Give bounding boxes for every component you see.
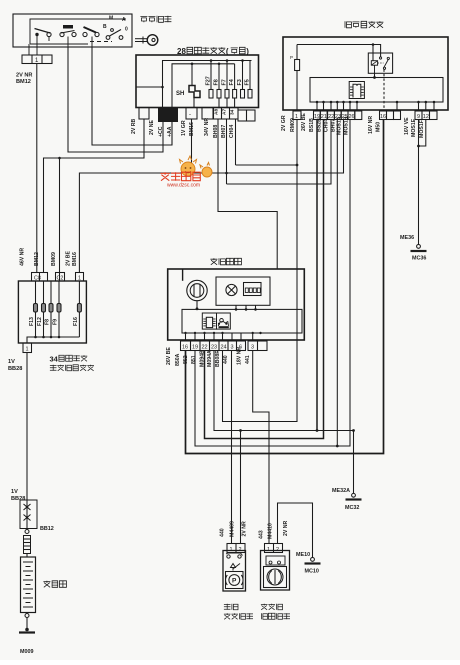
svg-text:F16: F16 <box>73 317 79 326</box>
svg-text:18V NR: 18V NR <box>237 347 243 365</box>
wire 440 cluster p3 to parking pin1 <box>231 351 233 544</box>
svg-text:2: 2 <box>276 547 279 553</box>
svg-text:16: 16 <box>182 345 188 351</box>
wire fluid pin2 to ground MC10 <box>278 503 313 558</box>
svg-text:3: 3 <box>231 345 234 351</box>
control pin 22 <box>324 111 335 132</box>
svg-text:0: 0 <box>125 27 128 33</box>
svg-text:-: - <box>189 112 191 118</box>
fuse F8 <box>214 64 222 108</box>
relay in control box <box>368 53 392 73</box>
key symbol <box>135 35 158 46</box>
fuse box pin I BM16 <box>181 108 197 137</box>
svg-text:12: 12 <box>423 114 429 120</box>
connector under ignition switch <box>22 55 52 64</box>
svg-text:46V NR: 46V NR <box>20 248 26 266</box>
ground ME32A MC32 <box>332 488 362 511</box>
wire gauge to inner rect <box>196 301 199 310</box>
wire CH04 control L to fuse A7 wire <box>227 120 332 185</box>
splice box BB12 <box>20 500 54 532</box>
ground M009 <box>19 614 35 656</box>
svg-text:RM09: RM09 <box>290 118 296 132</box>
svg-text:440: 440 <box>220 528 226 537</box>
fuse F16 <box>73 281 82 337</box>
watermark dzsc logo <box>161 156 213 189</box>
fuse box pin 34 <box>229 108 238 139</box>
svg-text:M094A: M094A <box>207 350 213 367</box>
svg-text:34V NR: 34V NR <box>204 118 210 136</box>
svg-text:26: 26 <box>349 114 355 120</box>
svg-text:1: 1 <box>267 547 270 553</box>
ignition rotary contact M A B 0 <box>103 16 128 40</box>
wire relay coil to inner rect <box>373 73 376 79</box>
cluster inner rect <box>182 309 302 333</box>
svg-text:M4409: M4409 <box>230 521 236 537</box>
fuse box pin A7 <box>221 108 230 139</box>
wire 443 cluster p3b to fluid pin1 <box>253 351 269 544</box>
fuse box bus T1 <box>161 59 251 107</box>
svg-text:440: 440 <box>223 355 229 364</box>
digital display module <box>244 283 262 296</box>
svg-text:2V NR: 2V NR <box>283 520 289 536</box>
fuse box blank pins <box>238 110 255 121</box>
wire BM12 ignition to C8 <box>36 64 38 273</box>
svg-text:BB28: BB28 <box>8 366 22 372</box>
svg-text:2V GR: 2V GR <box>281 115 287 131</box>
svg-text:BM09: BM09 <box>51 252 57 266</box>
wire BH07 down <box>336 120 338 447</box>
svg-text:SH: SH <box>176 91 184 97</box>
fuse box pin 34V NR <box>202 108 213 137</box>
svg-text:M009: M009 <box>20 649 34 655</box>
label 1V BB28 lower <box>11 489 25 502</box>
svg-text:441: 441 <box>245 355 251 364</box>
svg-text:F5: F5 <box>245 79 251 85</box>
svg-text:1V: 1V <box>8 359 15 365</box>
wire BH08 staircase to cluster top <box>218 119 277 269</box>
cluster pin 23 <box>200 341 220 367</box>
svg-text:F12: F12 <box>37 317 43 326</box>
IC chip in control box <box>349 82 364 99</box>
svg-text:24: 24 <box>221 345 227 351</box>
cluster gauge wire <box>182 269 184 281</box>
svg-text:34: 34 <box>50 355 59 364</box>
control blank pin after 26 <box>355 111 362 120</box>
svg-text:MOS1B: MOS1B <box>343 116 349 135</box>
title 34路熔断器 发动机控制盒 <box>50 355 95 371</box>
label 制动液 液面开关 <box>261 604 290 620</box>
svg-text:MC32: MC32 <box>345 505 359 511</box>
svg-text:MOS1F: MOS1F <box>419 120 425 138</box>
control pin 1 <box>281 111 301 132</box>
svg-text:B: B <box>103 24 107 30</box>
svg-text:BB12: BB12 <box>40 526 54 532</box>
34 fuse box body <box>18 281 86 343</box>
gauge symbol <box>187 280 207 300</box>
cluster pin 3 <box>215 341 237 367</box>
svg-text:BB28: BB28 <box>11 496 25 502</box>
fuse F13 <box>29 281 38 337</box>
svg-text:2V BE: 2V BE <box>66 250 72 266</box>
svg-text:CH04: CH04 <box>324 119 330 132</box>
label 1V BB28 upper <box>8 359 22 372</box>
svg-text:F9: F9 <box>53 319 59 325</box>
svg-text:16V VE: 16V VE <box>404 117 410 135</box>
svg-text:BM16: BM16 <box>189 122 195 136</box>
bus wire y421 p24 to RM09 <box>223 120 299 422</box>
svg-text:ME10: ME10 <box>296 552 310 558</box>
svg-text:851: 851 <box>191 355 197 364</box>
control blank pins after 16 <box>387 111 401 120</box>
svg-text:www.dzsc.com: www.dzsc.com <box>167 183 200 189</box>
34 fuse box top pin C2 <box>56 273 65 282</box>
cluster pin 6 <box>237 341 246 351</box>
svg-text:M50: M50 <box>376 122 382 132</box>
svg-text:F4: F4 <box>229 79 235 85</box>
label 蓄电池 <box>43 581 66 588</box>
control pin 9 <box>404 111 422 137</box>
34 fuse box top pin 1 <box>76 273 84 282</box>
svg-text:BB08R: BB08R <box>215 350 221 367</box>
ignition switch box 点火开关 <box>13 14 132 47</box>
cluster body <box>168 269 305 340</box>
fuse F5 <box>245 61 253 99</box>
wire 34 box to BB12 <box>26 353 28 501</box>
cluster 组合仪表 title <box>210 258 241 265</box>
control pin 16 <box>368 111 387 134</box>
cluster pin 24 <box>207 341 228 367</box>
svg-text:2V NE: 2V NE <box>149 119 155 135</box>
34 fuse box top pin C8 <box>32 273 48 282</box>
fusible link <box>24 530 31 558</box>
fuse box inner stub y87 <box>136 86 163 88</box>
cluster buzzer module <box>217 313 231 329</box>
fuse F27 <box>206 61 214 99</box>
svg-text:19: 19 <box>192 345 198 351</box>
ignition contact 2 <box>60 25 76 47</box>
control pin stubs and dots <box>316 101 436 111</box>
svg-text:A8: A8 <box>214 109 220 115</box>
svg-text:ME32A: ME32A <box>332 488 350 494</box>
wire M4409 tap to parking pin2 <box>240 431 242 544</box>
fuse box bus T2 <box>172 63 235 108</box>
cluster pin 16 <box>166 341 191 366</box>
svg-text:F7: F7 <box>222 79 228 85</box>
svg-text:BM12: BM12 <box>16 79 31 85</box>
bus wire y446 p19 to MOS1B <box>195 120 350 448</box>
wire MOS1E MOS1F to ground <box>417 120 426 245</box>
svg-text:22: 22 <box>202 345 208 351</box>
control pin 25 <box>337 111 349 135</box>
svg-text:850A: 850A <box>175 353 181 366</box>
control box fuse P <box>290 45 300 112</box>
battery 蓄电池 <box>21 557 36 613</box>
svg-text:1V: 1V <box>11 489 18 495</box>
fuse F9 <box>53 281 62 337</box>
wire ignition to +CC y152 <box>68 47 163 152</box>
wire C2 feed <box>59 158 61 273</box>
svg-text:16: 16 <box>380 114 386 120</box>
cluster pin 22 <box>191 341 210 364</box>
fluid switch body <box>261 551 290 591</box>
svg-text:26V BE: 26V BE <box>166 347 172 365</box>
svg-text:2: 2 <box>239 547 242 553</box>
svg-text:23: 23 <box>211 345 217 351</box>
svg-text:2V NR: 2V NR <box>16 73 32 79</box>
svg-text:3: 3 <box>251 345 254 351</box>
ground ME36 MC36 <box>400 235 427 262</box>
SH connector <box>176 64 200 108</box>
fuse box pin white 2V RB <box>131 108 149 135</box>
ignition contact 1 <box>29 29 51 56</box>
bus wire y430 p23 to BS1B and ground ME32A <box>214 351 355 494</box>
svg-text:26V BE: 26V BE <box>301 113 307 131</box>
cluster lamp box <box>216 277 270 305</box>
control box inner rect <box>310 78 443 103</box>
34 box top feed wire C2 internal <box>59 273 61 282</box>
control pin 23 <box>330 111 341 132</box>
control pin 12 <box>419 111 430 138</box>
svg-text:M4410: M4410 <box>268 523 274 539</box>
svg-text:F3: F3 <box>237 79 243 85</box>
fuse box pin A8 <box>213 108 222 139</box>
ignition contact 3 <box>83 27 99 47</box>
wire long y173 run MOS1A to BM16 pin1 <box>79 120 343 273</box>
svg-text:2V NR: 2V NR <box>242 521 248 537</box>
wire RM09 branch to fuse CH04 wire <box>236 164 298 166</box>
svg-text:1: 1 <box>26 347 29 353</box>
wires lamp box to inner rect <box>235 305 257 310</box>
fuse F12 <box>37 281 46 337</box>
svg-text:443: 443 <box>259 530 265 539</box>
svg-text:A7: A7 <box>222 109 228 115</box>
svg-text:1: 1 <box>230 547 233 553</box>
svg-text:BM16: BM16 <box>72 252 78 266</box>
svg-text:F8: F8 <box>45 319 51 325</box>
svg-text:MOS1E: MOS1E <box>411 118 417 137</box>
svg-text:+CC: +CC <box>158 126 164 137</box>
svg-text:F27: F27 <box>206 76 212 85</box>
fuse F7 <box>222 61 230 108</box>
svg-text:16V NR: 16V NR <box>368 116 374 134</box>
wire CH04 fuse down <box>235 119 237 165</box>
svg-text:F13: F13 <box>29 317 35 326</box>
warning lamp <box>226 284 237 295</box>
svg-text:CH04: CH04 <box>229 125 235 138</box>
svg-text:34: 34 <box>230 109 236 115</box>
wire BS1B down <box>316 120 318 431</box>
34 box collector wire <box>27 336 79 343</box>
control box top wire to relay <box>297 43 381 61</box>
control pin 26 <box>343 111 355 135</box>
wire BH07 down <box>226 119 228 184</box>
fuse F8b <box>45 281 54 337</box>
svg-text:MC10: MC10 <box>305 569 319 575</box>
svg-text:P: P <box>232 578 237 585</box>
bus wire y438 p22 to BS2B <box>205 120 324 439</box>
parking brake switch connector <box>220 521 248 553</box>
fuse F3 <box>237 61 245 99</box>
cluster IC <box>202 313 216 329</box>
control pin 19 <box>301 111 320 132</box>
cluster pin 3b <box>237 341 258 365</box>
fluid level symbol <box>264 567 287 588</box>
svg-text:9: 9 <box>417 114 420 120</box>
cluster blank pin <box>258 341 268 351</box>
svg-text:BS1B: BS1B <box>309 118 315 132</box>
cluster pin stubs <box>184 332 261 341</box>
fluid switch connector <box>259 520 290 552</box>
control pin 21 <box>317 111 328 132</box>
svg-text:ME36: ME36 <box>400 235 414 241</box>
bus wire y453 thick p16 to M50 <box>186 120 384 454</box>
fuse box body <box>136 55 259 108</box>
control box body <box>283 37 448 110</box>
parking brake P symbol <box>226 572 244 589</box>
svg-text:2V RB: 2V RB <box>131 118 137 134</box>
fuse F4 <box>229 64 237 108</box>
svg-text:1V GR: 1V GR <box>181 120 187 136</box>
wire BM16 fuse pin down <box>191 119 193 173</box>
svg-text:F8: F8 <box>214 79 220 85</box>
svg-text:MC36: MC36 <box>412 256 426 262</box>
wire ignition to +AA y145 <box>92 47 172 145</box>
34 box bottom pin 1 <box>23 343 32 353</box>
label 驻车 制动开关 <box>224 604 253 620</box>
parking brake switch body <box>223 551 246 592</box>
control blank pin after 12 <box>430 111 438 120</box>
svg-text:P: P <box>290 55 293 60</box>
dashed wire relay to pin16 <box>383 69 385 111</box>
wire net A y158 to 2V RB pin <box>44 119 145 273</box>
title 点火开关 <box>140 16 171 22</box>
wire +AA down <box>171 122 173 146</box>
34 fuse box top labels <box>20 248 79 266</box>
ground ME10 MC10 <box>296 552 321 575</box>
fuse box pin black +CC +AA <box>149 108 178 138</box>
cluster pin 19 <box>183 341 200 364</box>
svg-text:BM12: BM12 <box>34 252 40 266</box>
svg-text:A: A <box>122 17 126 23</box>
svg-text:M: M <box>109 16 113 22</box>
control box 智能控制盒 title <box>345 21 383 28</box>
